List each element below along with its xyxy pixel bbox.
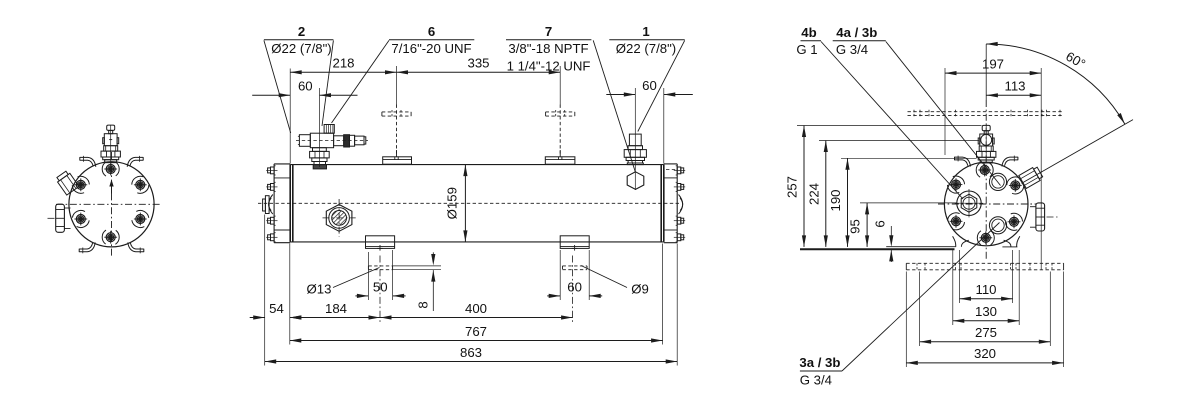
extension line connection 7: [559, 66, 561, 105]
svg-text:Ø9: Ø9: [631, 282, 649, 297]
right view foot left: [953, 236, 969, 247]
right view horizontal centerline: [938, 203, 1036, 205]
left view horizontal centerline: [56, 203, 160, 205]
connection 1 fitting: [624, 134, 646, 165]
middle view left cap bolt 4: [266, 233, 277, 242]
extension line connection 1: [634, 88, 636, 190]
right view center top extension: [985, 44, 987, 100]
label diameter 13: [307, 268, 380, 297]
dimension 224: [806, 141, 828, 247]
extension lines 275: [920, 272, 1051, 347]
extension line shell left face: [289, 69, 291, 164]
right view bolt 4: [977, 231, 994, 245]
middle view left cap bolt 1: [266, 166, 277, 175]
svg-text:Ø22 (7/8"): Ø22 (7/8"): [616, 41, 676, 56]
right view hidden rear connections row: [908, 110, 1064, 118]
svg-text:3a / 3b: 3a / 3b: [799, 355, 840, 370]
left view hook bottom-left: [79, 242, 95, 253]
left view bolt 1: [102, 162, 119, 176]
middle view right cap bolt 1: [674, 166, 685, 175]
svg-text:60: 60: [567, 279, 582, 294]
right view hook top-left: [955, 156, 971, 167]
callout 3a 3b: [799, 355, 842, 387]
callout 3a 3b leader: [842, 223, 1000, 372]
middle view left cap bolt 2: [266, 182, 277, 191]
extension line 257 top: [797, 125, 982, 127]
right view base plate top line: [886, 246, 956, 248]
dimension 60 foot2: [547, 279, 602, 298]
dimension 320: [906, 346, 1063, 365]
extension line cap right face bottom: [676, 244, 678, 366]
middle view left cap hooks edge: [269, 195, 273, 215]
extension line connection 6: [396, 66, 398, 105]
connection 6 weld boss: [383, 157, 412, 164]
extension line 95 top: [860, 202, 957, 204]
dimension 184: [290, 301, 380, 320]
left end view shell circle: [69, 162, 154, 247]
right view vertical centerline: [985, 100, 987, 260]
svg-text:8: 8: [416, 301, 431, 308]
right view bolt 6: [1004, 211, 1025, 233]
dimension 113: [986, 79, 1041, 98]
extension lines foot1 slot: [368, 250, 392, 300]
svg-text:218: 218: [332, 56, 354, 71]
dimension 400: [380, 301, 573, 320]
extension lines 320: [906, 272, 1063, 368]
middle view shell top line: [290, 164, 664, 166]
dimension 50: [355, 279, 405, 298]
svg-text:7: 7: [545, 24, 552, 39]
dimension 863: [265, 345, 678, 364]
svg-text:Ø22 (7/8"): Ø22 (7/8"): [271, 41, 331, 56]
svg-text:G 1: G 1: [796, 42, 817, 57]
svg-text:4b: 4b: [801, 25, 816, 40]
left view flow direction arrow: [109, 180, 113, 194]
connection 7 hidden centerline: [559, 105, 561, 157]
dimension 130: [953, 304, 1019, 323]
label diameter 9: [581, 266, 649, 297]
callout 7: [506, 24, 591, 73]
svg-text:Ø13: Ø13: [307, 282, 332, 297]
svg-text:4a / 3b: 4a / 3b: [836, 25, 877, 40]
right view foot right: [1002, 236, 1019, 247]
right view hidden base plate: [906, 263, 1063, 270]
left view hook top-left: [80, 156, 96, 167]
middle view foot 2: [560, 236, 589, 251]
dimension diameter 159: [445, 165, 468, 242]
svg-text:95: 95: [848, 219, 863, 234]
svg-text:320: 320: [974, 346, 996, 361]
middle view right cap hidden bolt line: [666, 169, 677, 171]
dimension 6: [873, 220, 894, 262]
connection 4b G1 hole with hex plug: [955, 189, 983, 217]
extension line shell right face bottom: [662, 244, 664, 345]
callout 4b leader: [821, 42, 963, 200]
left view bolt 5: [130, 174, 151, 196]
extension line shell right face top: [663, 88, 665, 164]
svg-text:224: 224: [806, 183, 821, 205]
valve assembly connection 2: [296, 125, 368, 169]
svg-text:7/16"-20 UNF: 7/16"-20 UNF: [391, 41, 471, 56]
callout 2: [264, 24, 334, 56]
svg-text:Ø159: Ø159: [445, 187, 460, 219]
right view side connection nut: [1030, 203, 1058, 231]
svg-text:275: 275: [975, 325, 997, 340]
left view side connection nut: [48, 204, 71, 232]
connection 7 hidden plug: [546, 110, 575, 118]
svg-text:257: 257: [785, 176, 800, 198]
callout 1: [609, 24, 684, 56]
dimension 190: [828, 158, 850, 247]
dimension 197: [945, 57, 1041, 76]
svg-text:60: 60: [642, 78, 657, 93]
dimension 8 slot height: [393, 252, 441, 311]
extension lines 110: [960, 250, 1013, 303]
right view bolt 5: [1005, 174, 1026, 196]
svg-text:60: 60: [298, 79, 313, 94]
extension line 197 right: [1040, 68, 1042, 270]
extension lines foot2 slot: [560, 250, 589, 300]
svg-text:113: 113: [1004, 79, 1025, 94]
foot 2 hidden slot: [563, 266, 588, 270]
svg-text:2: 2: [298, 24, 305, 39]
foot 2 centerline: [572, 256, 574, 323]
foot 1 hidden slot: [368, 266, 392, 270]
middle view right cap bolt 4: [674, 233, 685, 242]
middle view foot 1: [366, 236, 395, 251]
dimension 335: [397, 56, 561, 75]
extension line 224 top: [819, 140, 979, 142]
callout 1 leader leg: [638, 40, 685, 131]
extension line cap left face bottom: [264, 215, 266, 366]
60 degree ray: [1022, 120, 1134, 184]
middle view shell bottom line: [290, 241, 664, 243]
svg-text:190: 190: [828, 189, 843, 211]
svg-text:197: 197: [982, 57, 1004, 72]
svg-text:1 1/4"-12 UNF: 1 1/4"-12 UNF: [507, 59, 591, 74]
extension line valve center: [319, 88, 321, 167]
middle view shell right tubesheet: [661, 165, 664, 242]
callout 7 leader: [593, 40, 635, 171]
middle view left end cap: [274, 164, 290, 243]
middle view left side fitting profile: [263, 196, 270, 214]
middle view shell left tubesheet: [290, 165, 293, 242]
dimension 767: [290, 324, 663, 343]
svg-text:G 3/4: G 3/4: [836, 42, 868, 57]
connection 4a G3/4 hole: [989, 173, 1006, 190]
svg-text:50: 50: [373, 279, 388, 294]
callout 6: [389, 24, 474, 56]
extension line shell left face bottom: [289, 244, 291, 345]
right view hook top-right: [1002, 156, 1018, 167]
middle view right cap bolt 3: [674, 216, 685, 225]
dimension 60 degree arc: [986, 42, 1125, 124]
right end view shell circle: [944, 162, 1028, 246]
callout 6 leader: [332, 40, 390, 123]
middle view right end cap: [664, 164, 677, 243]
callout 2 leader legs: [264, 40, 334, 133]
svg-text:110: 110: [975, 282, 996, 297]
extension line 190 top: [841, 157, 977, 159]
left view vertical centerline: [111, 152, 113, 257]
connection 7 weld boss: [545, 157, 575, 164]
left view bolt 6: [130, 208, 150, 230]
left view bolt 3: [71, 208, 91, 229]
left view angled hex plug: [55, 170, 79, 195]
dimension 95: [848, 203, 870, 247]
dimension 60 left: [252, 79, 357, 98]
left view bolt 2: [70, 174, 91, 196]
dimension 218: [290, 56, 396, 75]
svg-text:767: 767: [465, 324, 487, 339]
callout 4a 3b: [833, 25, 886, 57]
svg-text:6: 6: [873, 220, 888, 227]
right view baseline heavy: [800, 248, 955, 250]
svg-text:1: 1: [642, 24, 649, 39]
connection 3b G3/4 hole: [989, 217, 1006, 234]
connection 6 hidden centerline: [396, 105, 398, 157]
middle view right cap bolt 2: [674, 182, 685, 191]
foot 1 centerline: [379, 256, 381, 323]
svg-text:400: 400: [465, 301, 487, 316]
svg-text:130: 130: [975, 304, 997, 319]
left view hook top-right: [127, 156, 143, 167]
connection 1 hex plug below: [627, 172, 644, 190]
middle view centerline: [258, 202, 681, 204]
svg-text:184: 184: [325, 301, 347, 316]
svg-text:335: 335: [467, 56, 489, 71]
right view bolt 3: [946, 210, 967, 232]
dimension 275: [920, 325, 1051, 344]
connection 6 hidden plug: [382, 110, 411, 118]
svg-text:3/8"-18 NPTF: 3/8"-18 NPTF: [508, 41, 588, 56]
hatched hex plug on shell: [323, 199, 356, 237]
right view bolt 1: [976, 163, 994, 178]
svg-text:60°: 60°: [1063, 49, 1088, 72]
callout 4b: [796, 25, 821, 57]
left view relief valve stack: [101, 125, 120, 163]
callout 4a 3b leader: [886, 42, 1001, 186]
svg-text:6: 6: [428, 24, 435, 39]
right view relief valve stack connection 4b: [977, 125, 996, 162]
dimension 54: [250, 301, 305, 320]
right view bolt 2: [946, 174, 967, 196]
svg-text:G 3/4: G 3/4: [800, 372, 832, 387]
dimension 110: [960, 282, 1013, 301]
left view bolt 4: [102, 230, 119, 244]
middle view right cap hooks edge: [679, 195, 683, 215]
svg-text:54: 54: [269, 301, 284, 316]
right view angled hex plug connection 3a: [1019, 166, 1044, 189]
extension lines 130: [953, 250, 1019, 325]
dimension 257: [785, 126, 807, 247]
left view hook bottom-right: [128, 242, 144, 253]
extension line 197 left: [944, 68, 946, 155]
middle view left cap bolt 3: [266, 216, 277, 225]
dimension 60 right: [606, 78, 693, 97]
svg-text:863: 863: [460, 345, 482, 360]
